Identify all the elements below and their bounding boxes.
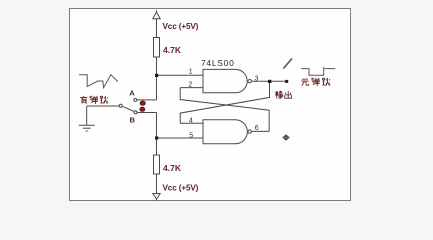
pen slash mark xyxy=(284,59,292,68)
svg-text:74LS00: 74LS00 xyxy=(201,58,235,68)
wire: pin 2 from left rail xyxy=(180,87,203,89)
switch pole contact circle xyxy=(119,104,122,107)
svg-text:A: A xyxy=(129,89,135,98)
svg-text:3: 3 xyxy=(255,75,259,82)
move cursor diamond xyxy=(282,134,289,141)
svg-text:4.7K: 4.7K xyxy=(163,163,182,173)
svg-text:2: 2 xyxy=(188,81,192,88)
Vcc (+5V) power symbol bottom xyxy=(153,194,160,201)
svg-text:4.7K: 4.7K xyxy=(163,45,182,55)
wire: lower junction to R2 xyxy=(156,138,158,155)
resistor R1 body xyxy=(154,38,160,58)
wire: contact B to vertical xyxy=(137,112,156,114)
wire: contact A to vertical xyxy=(137,99,157,101)
svg-text:Vcc (+5V): Vcc (+5V) xyxy=(163,184,199,193)
wire: pole wire to ground xyxy=(86,106,88,125)
svg-text:4: 4 xyxy=(189,118,193,125)
ground symbol xyxy=(79,125,95,131)
U1B output bubble xyxy=(248,130,251,133)
U1A output bubble xyxy=(248,80,251,83)
junction dot at output feedback xyxy=(268,80,271,83)
text 输出 xyxy=(275,91,291,99)
wire: B level down to lower junction xyxy=(156,113,158,139)
svg-text:Vcc (+5V): Vcc (+5V) xyxy=(163,22,199,31)
switch arm blade xyxy=(122,106,134,111)
schematic canvas frame xyxy=(70,9,351,201)
junction dot at lower rail/pin5 xyxy=(155,136,158,139)
svg-text:B: B xyxy=(130,115,136,124)
svg-text:5: 5 xyxy=(189,132,193,139)
wire: pin 6 output xyxy=(251,130,269,132)
Vcc (+5V) power symbol top xyxy=(153,10,160,19)
text 无弹跳 xyxy=(301,78,330,86)
junction dot at R1/pin1 xyxy=(155,74,158,77)
wire: lower junction to pin 5 xyxy=(157,137,204,139)
wire: junction down to contact A level xyxy=(156,75,158,100)
switch contact A circle xyxy=(134,98,137,101)
svg-text:6: 6 xyxy=(255,125,259,132)
wire: pin 3 output to endpoint xyxy=(251,80,286,82)
switch pole wire xyxy=(87,105,119,107)
output endpoint dot xyxy=(285,80,288,83)
wire: feedback pin3 junction down-diagonal to pin 4 xyxy=(180,81,269,123)
wire: Vcc top to R1 xyxy=(156,19,158,38)
bounce contact red dot lower xyxy=(140,107,145,111)
wire: feedback pin6 up-diagonal to pin 2 xyxy=(180,88,269,132)
bounce contact red dot upper xyxy=(140,101,145,105)
wire: R1 to node A junction xyxy=(156,57,158,75)
NAND gate U1B body xyxy=(203,120,247,144)
bouncy waveform sketch xyxy=(79,75,118,88)
clean pulse waveform xyxy=(301,67,335,75)
resistor R2 body xyxy=(154,155,160,174)
text 有弹跳 xyxy=(80,96,108,104)
wire: junction to pin 1 xyxy=(157,74,204,76)
NAND gate U1A body xyxy=(203,69,247,92)
svg-text:1: 1 xyxy=(189,69,193,76)
switch contact B circle xyxy=(134,111,137,114)
wire: R2 to Vcc bottom xyxy=(156,174,158,194)
